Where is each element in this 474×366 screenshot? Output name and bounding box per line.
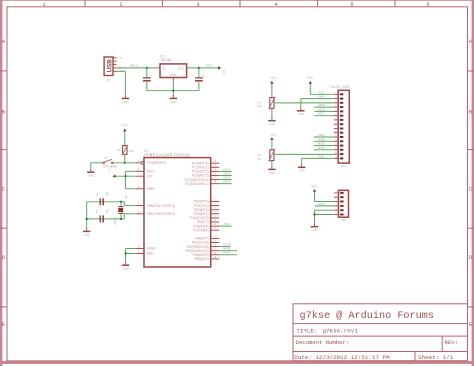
ground symbol below JP1 pin 2 wire <box>297 107 304 116</box>
svg-text:B: B <box>469 110 472 116</box>
svg-text:E: E <box>2 322 5 328</box>
voltage regulator IC1 <box>160 54 187 77</box>
svg-text:MISO: MISO <box>223 251 230 255</box>
wire IC1 ground stub <box>172 78 174 91</box>
junction ground bus <box>172 90 174 92</box>
wire IC1 output to VCC <box>187 67 219 69</box>
supply arrow VCC right <box>206 63 226 75</box>
svg-text:TITLE:: TITLE: <box>296 328 317 335</box>
IC2 right pin names <box>185 161 209 261</box>
wire R1 to reset net <box>124 154 126 162</box>
microcontroller IC2 ATMEGA328P body <box>144 149 211 267</box>
svg-text:MOSI: MOSI <box>223 247 230 251</box>
svg-text:VCC: VCC <box>147 174 154 178</box>
wire R2 wiper to JP1 pin 3 <box>274 102 334 104</box>
junction crystal top <box>120 201 122 203</box>
supply symbol VCC above JP2 <box>311 184 318 191</box>
wires IC2 AGND/GND to ground <box>126 249 136 262</box>
wires JP1 net stubs rows 4-6 <box>314 103 334 116</box>
svg-text:22p: 22p <box>105 191 109 196</box>
switch S1 OFF-MOM <box>91 156 118 169</box>
svg-text:GND: GND <box>299 169 305 173</box>
frame row letters <box>2 39 473 328</box>
svg-text:C2: C2 <box>200 73 204 77</box>
IC2 left pin names <box>147 161 176 256</box>
svg-text:GND: GND <box>170 100 176 104</box>
wire crystal bottom net <box>87 214 136 219</box>
svg-text:2: 2 <box>119 2 122 8</box>
IC2 left pin stubs and numbers <box>136 160 144 254</box>
svg-text:GND: GND <box>311 228 317 232</box>
frame row dividers <box>0 71 474 307</box>
svg-text:D-: D- <box>117 61 120 63</box>
ground symbol below IC1 <box>170 95 177 104</box>
junction crystal ground rail <box>86 218 88 220</box>
svg-text:ADC3: ADC3 <box>223 171 231 175</box>
capacitor C2 <box>195 68 204 91</box>
svg-text:4: 4 <box>274 2 277 8</box>
svg-text:22p: 22p <box>105 209 109 214</box>
svg-text:VCC: VCC <box>222 69 226 75</box>
svg-text:R1: R1 <box>117 148 121 152</box>
svg-text:GND: GND <box>147 252 155 256</box>
ground symbol below USB <box>122 95 129 104</box>
svg-text:AIN0: AIN0 <box>223 222 230 226</box>
wire crystal top net <box>87 202 136 206</box>
title block TITLE row <box>296 328 358 335</box>
svg-text:AGND: AGND <box>147 247 157 251</box>
wire AVCC riser <box>126 171 136 189</box>
svg-text:GND: GND <box>122 267 128 271</box>
svg-text:PWR: PWR <box>117 58 123 60</box>
ground symbol left of S1 <box>87 169 94 178</box>
svg-text:GND: GND <box>298 112 304 116</box>
resistor R1 <box>117 145 134 156</box>
svg-text:GND: GND <box>318 154 324 158</box>
supply symbol VCC above R2 <box>270 76 277 84</box>
svg-text:PB5(SCK): PB5(SCK) <box>194 257 209 261</box>
junction VCC/C2 <box>198 67 200 69</box>
wire JP2 pin 4 net stub <box>315 202 335 206</box>
wire to regulator ground symbol <box>172 91 174 95</box>
svg-text:OC1B: OC1B <box>318 137 326 141</box>
title block date row <box>294 354 454 361</box>
svg-text:C: C <box>2 187 5 193</box>
svg-text:5: 5 <box>350 2 353 8</box>
pin header JP2 body <box>339 190 349 222</box>
supply symbol VCC above JP1 <box>307 76 314 84</box>
svg-text:g7kse @ Arduino Forums: g7kse @ Arduino Forums <box>300 310 435 322</box>
svg-text:AVCC: AVCC <box>147 169 156 173</box>
svg-text:AREF: AREF <box>147 187 155 191</box>
svg-text:GND: GND <box>269 171 275 175</box>
wire R3 wiper to JP1 pin 15 <box>274 153 334 155</box>
svg-text:S1: S1 <box>104 156 108 160</box>
wire VCC arrow to MCU VCC pin <box>116 175 136 177</box>
svg-text:REV:: REV: <box>445 339 458 346</box>
JP1 pads and pin stubs <box>334 92 344 159</box>
wire R2 to ground <box>271 108 273 117</box>
junction JP2 ground <box>313 213 315 215</box>
svg-text:AIN0: AIN0 <box>318 133 325 137</box>
pin header JP1 PULSE_GEN body <box>330 85 350 168</box>
wire VCC to JP2 pin 3 <box>315 192 335 202</box>
svg-text:JP1: JP1 <box>341 164 347 168</box>
supply arrow VCC feeding AVCC/VCC/AREF <box>107 168 115 178</box>
wire crystal ground rail <box>86 202 88 228</box>
svg-text:ADC4: ADC4 <box>318 202 326 206</box>
svg-text:ATMEGA328P-PDIP28: ATMEGA328P-PDIP28 <box>144 152 191 157</box>
capacitor C4 <box>95 191 109 205</box>
supply symbol VCC above R1 <box>121 123 128 131</box>
ground symbol below R3 <box>268 166 275 175</box>
svg-text:JP2: JP2 <box>341 218 347 222</box>
wire IC2 PD6 net stub AIN0 <box>219 222 232 226</box>
svg-text:20MHz: 20MHz <box>114 217 117 225</box>
svg-text:PB7(XTAL2/TOSC2): PB7(XTAL2/TOSC2) <box>147 212 176 216</box>
junction reset net <box>124 162 126 164</box>
svg-text:PULSE_GEN: PULSE_GEN <box>330 85 350 89</box>
ground symbol below JP1 pin 16 wire <box>298 164 305 173</box>
svg-text:D: D <box>469 255 472 261</box>
svg-text:GND: GND <box>88 174 94 178</box>
capacitor C1 <box>143 68 152 91</box>
wire ground to JP1 pin 2 <box>301 99 334 108</box>
svg-text:MISO: MISO <box>318 146 325 150</box>
ground symbol crystal rail <box>83 228 90 237</box>
svg-text:Document Number:: Document Number: <box>296 339 350 346</box>
svg-text:ADC1: ADC1 <box>318 107 326 111</box>
svg-text:C5: C5 <box>95 210 99 214</box>
wire S1 to ground <box>90 163 92 169</box>
wire VBUS from USB to IC1 <box>116 67 160 69</box>
wire VCC to R1 <box>124 131 126 145</box>
svg-text:VCC: VCC <box>318 90 324 94</box>
svg-text:GND: GND <box>269 122 275 126</box>
svg-text:IN: IN <box>162 67 165 71</box>
svg-text:Q1: Q1 <box>124 195 128 199</box>
svg-text:3: 3 <box>196 2 199 8</box>
svg-text:VCC: VCC <box>311 184 318 188</box>
svg-text:GND: GND <box>122 100 128 104</box>
svg-text:INT0: INT0 <box>318 112 324 116</box>
svg-text:C1: C1 <box>148 73 152 77</box>
svg-text:PB6(XTAL1/TOSC1): PB6(XTAL1/TOSC1) <box>147 204 176 208</box>
title block document number row <box>296 339 458 346</box>
svg-text:78L05Z: 78L05Z <box>160 58 172 62</box>
svg-text:D: D <box>2 255 5 261</box>
IC2 right pin stubs and numbers <box>211 160 220 259</box>
wires IC2 ADC net stubs with labels <box>219 167 232 183</box>
svg-text:ADC5: ADC5 <box>223 180 231 184</box>
title block <box>293 304 468 361</box>
wire R3 to ground <box>271 161 273 166</box>
wire JP2 pins 5-6 to ground <box>315 210 335 223</box>
svg-text:PD7(AIN1): PD7(AIN1) <box>193 228 208 232</box>
svg-text:Sheet: 1/1: Sheet: 1/1 <box>418 354 454 361</box>
svg-text:VCC: VCC <box>270 133 277 137</box>
JP2 pads and pin stubs <box>334 191 344 216</box>
wire VCC to R2 <box>271 84 273 98</box>
junction MCU VCC vertical <box>124 175 126 177</box>
supply symbol VCC above R3 <box>270 133 277 140</box>
wire ground bus C1-C2 <box>147 90 199 92</box>
ground symbol below JP2 <box>311 223 318 232</box>
wire VCC to JP1 pin 1 <box>310 84 334 95</box>
svg-text:MOSI: MOSI <box>318 142 325 146</box>
junction VBUS/C1 <box>146 67 148 69</box>
svg-text:VBUS: VBUS <box>130 63 138 67</box>
svg-text:B: B <box>2 110 5 116</box>
svg-text:GND: GND <box>84 233 90 237</box>
svg-text:USB: USB <box>106 59 113 73</box>
wire ground to JP1 pin 16 <box>302 158 334 164</box>
wire USB GND drop <box>116 71 125 95</box>
junction crystal bottom <box>120 218 122 220</box>
svg-text:PC6(/RESET): PC6(/RESET) <box>147 161 167 165</box>
ground symbol below R2 <box>268 117 275 126</box>
svg-text:PC5(ADC5/SCL): PC5(ADC5/SCL) <box>185 182 209 186</box>
svg-text:OC1B: OC1B <box>223 243 231 247</box>
svg-text:10k: 10k <box>129 149 134 153</box>
svg-text:GND: GND <box>170 73 178 77</box>
potentiometer R2 <box>257 97 275 110</box>
svg-text:ADC2: ADC2 <box>223 167 231 171</box>
svg-text:ADC0: ADC0 <box>318 103 326 107</box>
svg-text:1: 1 <box>42 2 45 8</box>
svg-text:C4: C4 <box>95 192 99 196</box>
frame column numbers <box>42 2 429 8</box>
svg-text:Date: 12/3/2012 12:51:17 PM: Date: 12/3/2012 12:51:17 PM <box>294 354 390 361</box>
frame column dividers <box>85 0 395 7</box>
svg-text:E: E <box>469 322 472 328</box>
crystal Q1 <box>114 195 128 225</box>
svg-text:g7kse-rev1: g7kse-rev1 <box>323 328 359 335</box>
wire S1 to MCU reset <box>113 162 135 164</box>
svg-text:VCC: VCC <box>206 63 213 67</box>
svg-text:10k: 10k <box>257 104 262 108</box>
wires IC2 PB net stubs <box>219 243 237 255</box>
svg-text:6: 6 <box>426 2 429 8</box>
capacitor C5 <box>95 209 109 223</box>
wire VCC to R3 <box>271 140 273 150</box>
svg-text:VCC: VCC <box>270 76 277 80</box>
USB connector X1 <box>104 57 124 83</box>
svg-text:OUT: OUT <box>178 67 185 71</box>
svg-text:GND: GND <box>318 95 324 99</box>
svg-text:10k: 10k <box>257 156 262 160</box>
ground symbol below IC2 <box>122 262 129 271</box>
svg-text:C: C <box>469 187 472 193</box>
potentiometer R3 <box>257 149 275 162</box>
svg-text:VCC: VCC <box>307 76 314 80</box>
svg-text:VCC: VCC <box>107 168 111 174</box>
wires JP1 net stubs rows 11-14 <box>314 133 334 150</box>
svg-text:ADC4: ADC4 <box>223 176 231 180</box>
svg-text:X1: X1 <box>107 79 111 83</box>
junction IC2 ground <box>124 252 126 254</box>
svg-text:VCC: VCC <box>121 123 128 127</box>
